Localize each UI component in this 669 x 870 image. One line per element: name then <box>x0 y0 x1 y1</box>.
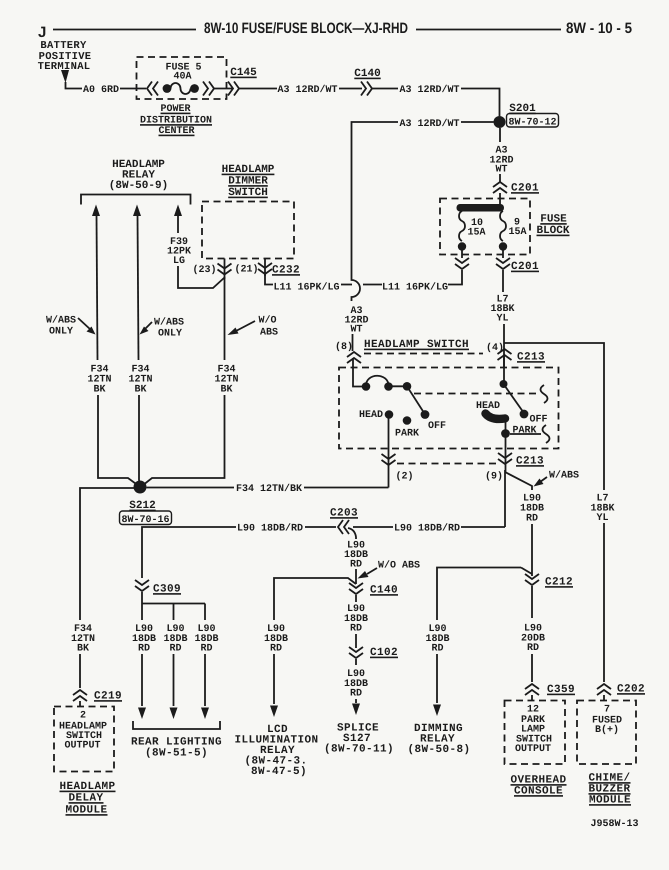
headlamp delay module box <box>54 707 114 772</box>
wire pin 9 branch down to L90 row <box>504 470 506 527</box>
svg-text:ONLY: ONLY <box>49 327 73 338</box>
svg-text:B(+): B(+) <box>595 724 619 736</box>
wire label L7 18BK YL (right column) <box>590 494 614 525</box>
wire label L90 18DB RD <box>344 541 368 571</box>
wire below C309 <box>141 592 143 604</box>
svg-text:(23): (23) <box>192 264 216 276</box>
splice S127 label <box>324 723 394 756</box>
svg-text:8W-70-16: 8W-70-16 <box>121 515 169 526</box>
wire L11 middle (hop gap) <box>363 284 382 286</box>
svg-text:A3 12RD/WT: A3 12RD/WT <box>399 118 459 130</box>
svg-text:ABS: ABS <box>260 328 278 339</box>
svg-text:RD: RD <box>527 643 539 654</box>
connector C145 <box>228 82 239 96</box>
rear lighting wire 1 lower <box>141 654 143 706</box>
svg-text:W/ABS: W/ABS <box>46 315 76 327</box>
wire C140 right <box>372 88 398 90</box>
svg-text:OUTPUT: OUTPUT <box>515 744 551 755</box>
switch left HEAD contact <box>385 410 394 419</box>
W/O ABS note arrow <box>367 568 377 574</box>
connector C213 pin 4 <box>498 349 512 360</box>
wire to S201 <box>461 89 500 117</box>
wire to C145 <box>214 88 232 90</box>
svg-text:J: J <box>38 24 46 41</box>
fuse 5 right node <box>190 84 199 93</box>
rear lighting arrowhead 3 <box>201 708 209 720</box>
connector C203 <box>338 520 349 534</box>
wire branch to LCD illumination relay <box>274 578 356 620</box>
wire LCD down <box>273 654 275 704</box>
wire label L90 20DB RD <box>521 624 545 655</box>
svg-text:L90 18DB/RD: L90 18DB/RD <box>237 523 303 535</box>
svg-text:RD: RD <box>526 514 538 525</box>
relay wire 2 lower to S212 <box>139 395 140 484</box>
wire into C203 <box>353 526 393 528</box>
headlamp dimmer switch box <box>202 202 294 259</box>
wire label L90 18DB RD <box>344 604 368 635</box>
svg-text:RD: RD <box>350 560 362 571</box>
svg-text:7: 7 <box>604 705 610 716</box>
connector C309 <box>135 580 149 591</box>
wire L7 down to C202 <box>603 523 605 682</box>
F39 wire upper <box>177 215 179 233</box>
W/ABS ONLY note 2 <box>154 317 184 340</box>
S201 reference box 8W-70-12 <box>507 114 559 129</box>
svg-text:12: 12 <box>527 705 539 716</box>
svg-text:L11 16PK/LG: L11 16PK/LG <box>382 282 448 294</box>
svg-text:(21): (21) <box>234 264 258 276</box>
wire label L90 18DB RD (3) <box>194 624 218 655</box>
wire to C359 <box>531 654 533 682</box>
wire C212 down <box>531 586 533 618</box>
connector C213 pin 9 <box>498 453 512 464</box>
rear lighting wire 1 <box>141 604 143 620</box>
connector C213 pin 2 <box>382 454 396 465</box>
switch right OFF contact <box>520 410 529 419</box>
svg-text:LG: LG <box>173 256 185 267</box>
switch right wiper to OFF <box>504 384 523 411</box>
svg-text:(2): (2) <box>395 471 413 483</box>
svg-text:RD: RD <box>270 644 282 655</box>
wire to C219 <box>79 654 81 688</box>
wire pin 9 down to C212 <box>531 524 533 576</box>
svg-text:YL: YL <box>496 314 508 325</box>
svg-text:BK: BK <box>93 385 105 396</box>
wire L11 left of hop <box>341 284 352 286</box>
wire fuse 10 down <box>461 251 463 259</box>
wire label F34 12TN BK (wire 2) <box>128 365 152 396</box>
svg-text:L11 16PK/LG: L11 16PK/LG <box>273 282 339 294</box>
W/ABS note 2 arrow <box>144 322 152 330</box>
switch right pivot node <box>500 380 508 388</box>
connector C219 <box>73 690 87 701</box>
W/O ABS note 3 <box>258 315 278 339</box>
wire dimming down <box>436 654 438 703</box>
W/ABS note 1 arrow <box>78 318 91 330</box>
svg-text:RD: RD <box>431 644 443 655</box>
svg-text:8W-70-12: 8W-70-12 <box>508 118 556 129</box>
headlamp switch box <box>339 368 559 449</box>
dimming relay arrowhead <box>433 705 441 717</box>
relay wire 1 upper <box>97 215 98 360</box>
svg-text:40A: 40A <box>173 72 191 83</box>
F39 wire lower to dimmer pin 23 <box>178 266 225 288</box>
wire branch to dimming relay <box>437 568 521 621</box>
rear lighting bracket <box>133 721 220 729</box>
connector C201 top <box>493 182 507 193</box>
switch internal squiggle bottom <box>543 425 550 443</box>
svg-text:RD: RD <box>138 644 150 655</box>
fuse 5 left terminal connector <box>147 82 158 96</box>
wire to C140 <box>355 569 357 584</box>
wire dimmer pin 23 down (W/O ABS branch) <box>224 277 226 360</box>
wire C203 left part <box>305 526 336 528</box>
rear lighting arrowhead 1 <box>138 708 146 720</box>
svg-text:A3 12RD/WT: A3 12RD/WT <box>399 84 459 96</box>
wire label L90 18DB RD <box>264 624 288 655</box>
switch internal squiggle top <box>541 385 548 403</box>
branch hook at C203 <box>348 528 356 539</box>
wire L11 to C232 <box>265 272 273 285</box>
splice S127 arrowhead <box>352 704 360 716</box>
wire L90 18DB/RD horizontal right part <box>461 526 505 528</box>
W/ABS note arrow <box>540 477 547 482</box>
relay wire 2 upper <box>138 215 139 360</box>
svg-text:RD: RD <box>169 644 181 655</box>
LCD arrowhead <box>270 706 278 718</box>
svg-text:RD: RD <box>200 644 212 655</box>
svg-text:A0 6RD: A0 6RD <box>83 85 119 96</box>
header rule left <box>53 29 196 31</box>
wire PARK contact down to pin 9 <box>505 437 507 473</box>
svg-text:YL: YL <box>596 513 608 524</box>
connector C201 fuse 9 <box>496 258 510 269</box>
W/O ABS note 3 arrow <box>235 321 255 332</box>
switch internal dashed line <box>414 393 538 395</box>
fuse 5 left node <box>163 84 172 93</box>
wire battery to PDC <box>66 82 83 89</box>
svg-text:J958W-13: J958W-13 <box>590 819 638 830</box>
switch right wiper stub to PARK <box>505 419 507 430</box>
delay module pin name <box>59 722 107 752</box>
wire L7 to headlamp switch pin 4 <box>503 324 505 368</box>
switch left wiper to OFF <box>407 386 424 412</box>
wire label F34 12TN BK (wire 3) <box>214 365 238 396</box>
svg-text:OFF: OFF <box>428 421 446 432</box>
svg-text:L90 18DB/RD: L90 18DB/RD <box>394 523 460 535</box>
svg-text:OUTPUT: OUTPUT <box>64 741 100 752</box>
splice S201 node <box>494 116 506 128</box>
wire S212 to pin 2 right part <box>304 487 389 489</box>
fuse 10 label 10 15A <box>467 218 485 239</box>
connector C359 <box>525 684 539 695</box>
wire label L90 18DB RD (2) <box>163 624 187 655</box>
wire <box>339 88 362 90</box>
svg-text:HEAD: HEAD <box>359 410 383 421</box>
wire pin 4 into switch <box>503 356 505 384</box>
svg-text:WT: WT <box>495 165 507 176</box>
chime buzzer module label <box>588 773 631 807</box>
fuse 10 element <box>459 211 465 241</box>
rear lighting wire 3 <box>204 604 206 621</box>
svg-text:8W-10 FUSE/FUSE BLOCK—XJ-RHD: 8W-10 FUSE/FUSE BLOCK—XJ-RHD <box>204 20 408 37</box>
wire label L90 18DB RD (1) <box>132 624 156 655</box>
rear lighting arrowhead 2 <box>170 708 178 720</box>
wire into chime module <box>603 695 605 701</box>
headlamp dimmer switch label <box>222 164 275 199</box>
connector C212 <box>525 574 539 585</box>
dimmer pin 21 wire stub <box>264 259 266 277</box>
console pin name <box>515 715 552 755</box>
overhead console label <box>510 775 566 798</box>
svg-text:W/ABS: W/ABS <box>154 317 184 329</box>
svg-text:BK: BK <box>77 644 89 655</box>
svg-text:W/O: W/O <box>258 315 276 327</box>
switch right PARK contact <box>501 429 510 438</box>
wire label A3 12RD WT vertical <box>344 306 368 336</box>
wire A3 into pin 8 <box>352 334 354 351</box>
wire label L90 18DB RD (dimming) <box>425 624 449 655</box>
svg-text:WT: WT <box>350 325 362 336</box>
wire left then down to headlamp switch <box>352 122 399 301</box>
switch left node 2 <box>384 382 393 391</box>
wire C145 to C140 <box>239 88 277 90</box>
svg-text:(8W-50-9): (8W-50-9) <box>109 180 168 192</box>
wire below C140 <box>355 595 357 602</box>
svg-text:(8W-51-5): (8W-51-5) <box>145 748 208 760</box>
wire branch L7 to right column <box>504 343 604 490</box>
LCD illumination relay label <box>234 724 318 778</box>
svg-text:(8): (8) <box>335 341 353 353</box>
battery positive terminal label <box>38 40 92 73</box>
relay wire 1 arrow <box>92 205 100 217</box>
relay wire 1 lower to S212 <box>98 395 138 485</box>
wire fuse 10 to L11 <box>448 270 462 285</box>
wire S212 to pin 2 left part <box>147 487 235 489</box>
chime buzzer module box <box>577 701 636 765</box>
svg-text:BK: BK <box>134 385 146 396</box>
overhead console box <box>505 701 566 765</box>
svg-text:OFF: OFF <box>530 415 548 426</box>
svg-text:2: 2 <box>80 711 86 722</box>
wire label F34 12TN BK (delay module) <box>71 624 95 655</box>
svg-text:A3 12RD/WT: A3 12RD/WT <box>277 84 337 96</box>
fuse 9 node <box>499 242 507 250</box>
wire label F39 12PK LG <box>167 237 191 267</box>
wire HEAD contact down to pin 2 <box>388 417 390 488</box>
relay wire 3 arrow (F39) <box>174 205 182 217</box>
connector C201 fuse 10 <box>455 258 469 269</box>
connector C140 mid <box>349 583 363 594</box>
headlamp relay label <box>109 159 168 192</box>
connector C202 <box>597 684 611 695</box>
svg-text:(9): (9) <box>485 471 503 483</box>
svg-text:15A: 15A <box>508 227 526 238</box>
switch left pivot node <box>362 382 371 391</box>
headlamp delay module label <box>59 781 115 817</box>
svg-text:W/ABS: W/ABS <box>549 470 579 482</box>
rear lighting label <box>131 737 222 760</box>
chime pin name FUSED B(+) <box>592 716 622 737</box>
power distribution center box <box>137 57 227 99</box>
splice S212 node <box>134 481 147 494</box>
fuse 9 label 9 15A <box>508 218 526 239</box>
fuse 9 element <box>500 211 506 241</box>
connector C213 top dashed link <box>364 353 483 355</box>
wire label L90 18DB RD <box>344 669 368 700</box>
battery terminal symbol <box>61 70 69 83</box>
connector C232 pin 21 <box>258 263 272 274</box>
wire into delay module <box>79 701 81 707</box>
wire label L7 18BK YL <box>490 295 514 325</box>
wire to C102 <box>355 634 357 648</box>
connector C232 pin 23 <box>218 264 232 275</box>
fuse 10 node <box>458 242 466 250</box>
wire S212 to headlamp delay module <box>80 488 134 620</box>
svg-text:W/O ABS: W/O ABS <box>378 560 420 572</box>
fuse block label <box>536 214 569 238</box>
switch right wiper arm thick <box>486 414 506 419</box>
switch left arc <box>366 376 389 385</box>
svg-text:ONLY: ONLY <box>158 329 182 340</box>
wire to splice S127 arrow <box>355 699 357 703</box>
switch left node 3 <box>403 382 412 391</box>
svg-text:15A: 15A <box>467 228 485 239</box>
svg-text:RD: RD <box>350 624 362 635</box>
rear lighting wire 3 lower <box>204 654 206 706</box>
svg-text:F34 12TN/BK: F34 12TN/BK <box>236 483 302 495</box>
fuse block bus bar <box>457 204 505 212</box>
wire into PDC <box>120 88 146 90</box>
power distribution center label <box>140 104 212 137</box>
wire diagonal into C212 <box>521 568 532 575</box>
switch left OFF contact <box>421 410 430 419</box>
headlamp relay bracket <box>81 195 191 205</box>
wire to C201 <box>499 174 501 182</box>
connector C102 <box>349 647 363 658</box>
wire below C102 <box>355 659 357 665</box>
wire fuse 9 down to L7 label <box>502 270 504 292</box>
dimmer pin 23 wire stub <box>224 259 226 280</box>
switch left link <box>389 385 408 387</box>
connector C213 pin 8 <box>347 352 361 363</box>
connector C213 bottom dashed link <box>397 463 497 465</box>
wire fuse 9 down <box>502 251 504 259</box>
wire label L90 18DB RD <box>520 494 544 525</box>
wire L90 to C309 <box>142 527 236 578</box>
rear lighting branch bar <box>142 603 205 605</box>
S212 reference box 8W-70-16 <box>120 511 172 526</box>
wire pin 9 jog right <box>505 472 532 490</box>
wire pin 8 into switch <box>353 358 362 387</box>
svg-text:8W - 10 - 5: 8W - 10 - 5 <box>566 20 632 37</box>
dimmer wire 3 lower to S212 <box>143 395 225 486</box>
dimming relay label <box>407 723 470 756</box>
relay wire 2 arrow <box>133 205 141 217</box>
header rule right <box>416 29 561 31</box>
rear lighting wire 2 <box>173 604 175 621</box>
switch right PARK line <box>510 433 541 435</box>
switch left PARK contact <box>403 416 412 425</box>
svg-text:8W-47-5): 8W-47-5) <box>251 766 307 778</box>
W/ABS ONLY note 1 <box>46 315 76 338</box>
wire into fuse block <box>499 193 501 206</box>
wire label A3 12RD WT <box>489 146 513 176</box>
wire into overhead console <box>531 695 533 701</box>
svg-text:BK: BK <box>220 385 232 396</box>
wire S201 to left branch <box>461 121 494 123</box>
wire S201 down <box>499 128 501 142</box>
svg-text:PARK: PARK <box>395 429 419 440</box>
fuse 5 element <box>171 83 191 94</box>
svg-text:RD: RD <box>350 689 362 700</box>
fuse 5 right connector <box>203 82 214 96</box>
wire label F34 12TN BK (wire 1) <box>87 365 111 396</box>
svg-text:(8W-50-8): (8W-50-8) <box>407 744 470 756</box>
rear lighting wire 2 lower <box>173 654 175 706</box>
fuse block box <box>440 199 530 255</box>
svg-text:(8W-70-11): (8W-70-11) <box>324 744 394 756</box>
connector C140 <box>361 82 372 96</box>
